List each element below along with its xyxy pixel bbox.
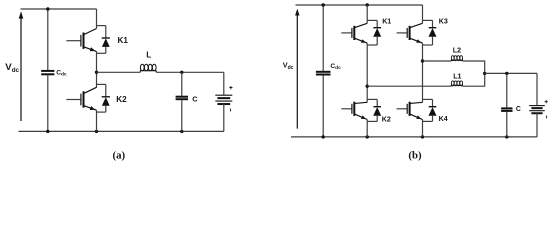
wire: K1 emitter tie (97, 52, 106, 54)
transistor K4 (b) (IGBT) (397, 102, 423, 120)
diode (antiparallel) of K3 (b) (429, 20, 437, 45)
wire: right leg top segment (b) (422, 5, 424, 23)
wire: midpoint to inductor (a) (97, 71, 141, 73)
wire: K2 emitter tie (97, 111, 106, 113)
diode (antiparallel) of K2 (b) (373, 99, 381, 121)
battery V1 (a) plus sign (229, 86, 232, 89)
inductor L1 (451, 85, 462, 86)
node: bottom rail / Cdc (b) (322, 135, 325, 138)
wire: K4 (b) collector tie (423, 98, 433, 100)
node: phase midpoint (a) (95, 71, 98, 74)
wire: leg mid segment (a) (96, 51, 98, 87)
wire: K3 (b) collector tie (423, 19, 433, 21)
wire: right leg mid segment (b) (422, 43, 424, 102)
battery V1 (b) (529, 73, 545, 136)
svg-text:K3: K3 (439, 17, 448, 25)
wire: top rail (a) (21, 8, 97, 10)
node: L1/L2 output join (483, 72, 486, 75)
diode (antiparallel) of K1 (102, 26, 110, 54)
node: left leg midpoint (b) (366, 85, 369, 88)
wire: K2 collector tie (97, 83, 106, 85)
wire: left midpoint to L1 (367, 85, 451, 87)
wire: output join to battery (b) (485, 72, 537, 74)
battery V1 (b) minus mark (546, 116, 548, 119)
node: bottom rail / C branch (b) (505, 135, 508, 138)
svg-text:(b): (b) (408, 150, 422, 162)
svg-text:L: L (146, 51, 151, 60)
battery V1 (b) plus sign (545, 100, 548, 103)
svg-text:Cdc: Cdc (330, 63, 341, 71)
wire: K1 (b) collector tie (367, 19, 377, 21)
node: bottom rail / left leg (b) (366, 135, 369, 138)
node: right leg midpoint (b) (421, 59, 424, 62)
node: bottom rail / right leg (b) (421, 135, 424, 138)
wire: K3 (b) emitter tie (423, 44, 433, 46)
diode (antiparallel) of K4 (b) (429, 99, 437, 121)
node: bottom rail / C junction (a) (180, 130, 183, 133)
source arrow Vdc (b) (295, 9, 299, 129)
svg-text:(a): (a) (113, 150, 126, 162)
svg-text:K2: K2 (382, 115, 391, 123)
capacitor Cdc (a) (41, 9, 54, 131)
node: output / C junction (a) (180, 71, 183, 74)
wire: left leg bottom segment (b) (366, 120, 368, 137)
capacitor C (b) (501, 73, 512, 136)
wire: inductor to battery (a) (156, 71, 224, 73)
wire: K2 (b) emitter tie (367, 120, 377, 122)
capacitor C (a) (176, 72, 188, 131)
wire: K4 (b) emitter tie (423, 120, 433, 122)
wire: left leg mid segment (b) (366, 43, 368, 102)
source arrow Vdc (a) (19, 11, 24, 121)
svg-text:Cdc: Cdc (56, 69, 67, 77)
inductor L2 (451, 60, 462, 61)
transistor K1 (b) (IGBT) (341, 23, 367, 43)
wire: L2 to output join (463, 61, 485, 73)
svg-text:K2: K2 (116, 95, 127, 104)
wire: L1 to output join (463, 73, 485, 86)
node: top rail / Cdc junction (a) (46, 7, 49, 10)
node: bottom rail / leg junction (a) (95, 130, 98, 133)
svg-text:K1: K1 (382, 17, 391, 25)
diode (antiparallel) of K2 (102, 84, 110, 112)
svg-text:Vdc: Vdc (5, 62, 19, 74)
battery V1 (a) (215, 72, 232, 131)
wire: K1 (b) emitter tie (367, 44, 377, 46)
battery V1 (a) minus mark (229, 109, 231, 112)
svg-text:K4: K4 (439, 115, 448, 123)
node: output / C junction (b) (505, 72, 508, 75)
svg-text:K1: K1 (118, 36, 129, 45)
svg-text:L2: L2 (453, 47, 461, 55)
wire: bottom rail (a) (19, 130, 224, 132)
diode (antiparallel) of K1 (b) (373, 20, 381, 45)
wire: top rail (b) (296, 4, 423, 6)
wire: bottom rail (b) (291, 136, 537, 138)
svg-text:C: C (192, 94, 198, 103)
transistor K1 (IGBT) (66, 29, 96, 52)
wire: right leg bottom segment (b) (422, 120, 424, 137)
transistor K2 (IGBT) (66, 87, 96, 110)
svg-text:L1: L1 (453, 72, 461, 80)
wire: leg bottom segment (a) (96, 110, 98, 131)
wire: K1 collector tie (97, 25, 106, 27)
wire: K2 (b) collector tie (367, 98, 377, 100)
wire: leg top segment (a) (96, 9, 98, 29)
inductor L (140, 71, 156, 73)
capacitor Cdc (b) (316, 5, 331, 137)
svg-text:Vdc: Vdc (283, 61, 294, 72)
transistor K3 (b) (IGBT) (397, 23, 423, 43)
wire: right midpoint to L2 (423, 60, 452, 62)
wire: left leg top segment (b) (366, 5, 368, 23)
transistor K2 (b) (IGBT) (341, 102, 367, 120)
node: top rail / left leg junction (b) (366, 3, 369, 6)
node: top rail / Cdc junction (b) (322, 3, 325, 6)
node: bottom rail / Cdc junction (a) (46, 130, 49, 133)
svg-text:C: C (516, 106, 521, 113)
